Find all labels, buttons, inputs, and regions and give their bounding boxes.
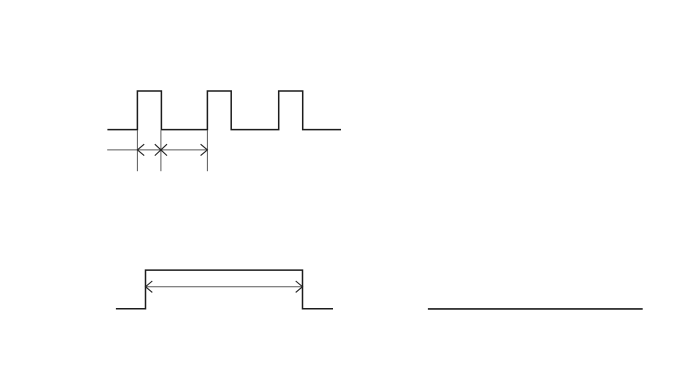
extension line at first rising edge (136, 130, 138, 171)
pulse width dimension line inside pulse (146, 286, 303, 288)
steady level line (bottom right) (428, 308, 643, 310)
single wide pulse waveform (bottom left) (116, 270, 333, 309)
extension line at second rising edge (206, 130, 208, 171)
arrowhead pointing right at pulse falling edge (296, 281, 303, 292)
arrowhead pointing right at third extension line (201, 144, 208, 155)
double arrowhead (X) at middle extension line (155, 144, 167, 155)
extension line at first falling edge (160, 130, 162, 171)
pulse train waveform (top) (107, 91, 341, 130)
arrowhead pointing left at first extension line (137, 144, 144, 155)
dimension line (pulse width / period measure) (107, 149, 207, 151)
arrowhead pointing left at pulse rising edge (146, 281, 153, 292)
